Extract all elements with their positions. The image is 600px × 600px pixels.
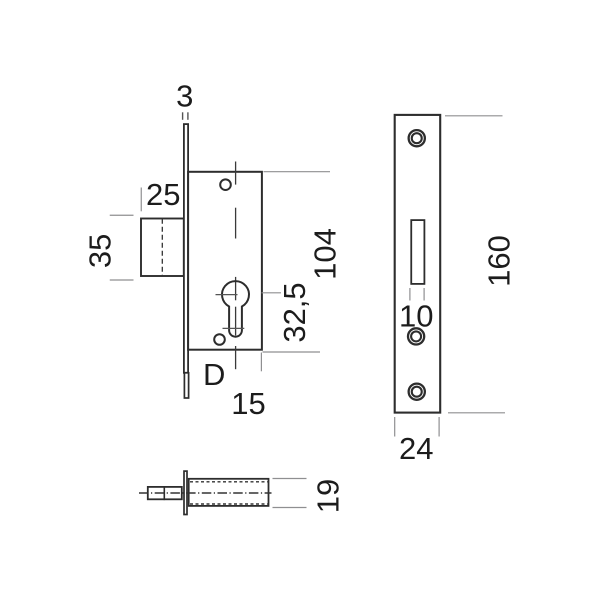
svg-text:24: 24	[399, 431, 433, 466]
dim 15 ext right	[260, 353, 262, 372]
crosshair cylinder center	[216, 294, 238, 296]
svg-text:15: 15	[231, 386, 265, 421]
svg-text:D: D	[203, 357, 225, 392]
dim 19 ext top	[273, 478, 307, 480]
spindle body	[189, 479, 269, 506]
dim 10 ext left	[409, 288, 411, 301]
dim 19 ext bottom	[273, 507, 307, 509]
svg-text:32,5: 32,5	[277, 282, 312, 342]
top screw hole	[220, 179, 231, 190]
svg-text:3: 3	[176, 79, 193, 114]
dim 3 tick left	[182, 112, 184, 120]
svg-text:25: 25	[146, 177, 180, 212]
plate hole bottom inner	[412, 387, 422, 397]
dim 104 ext bottom	[263, 351, 321, 353]
dim 160 ext top	[445, 115, 503, 117]
lock body	[188, 172, 262, 350]
centerline segment 3	[235, 277, 237, 300]
plate hole bottom outer	[409, 384, 425, 400]
dim 35 tick top	[110, 214, 134, 216]
spindle body dotted bottom	[190, 503, 268, 505]
dim 104 ext top	[264, 171, 331, 173]
faceplate lower end	[184, 373, 188, 398]
plate hole top outer	[409, 130, 425, 146]
svg-text:35: 35	[82, 234, 117, 268]
centerline segment 4	[235, 307, 237, 336]
latch slot	[411, 220, 424, 284]
dim 160 ext bottom	[448, 412, 505, 414]
spindle center axis	[139, 492, 272, 494]
dim 35 tick bottom	[110, 279, 134, 281]
faceplate (side view)	[184, 124, 188, 373]
svg-text:160: 160	[482, 235, 517, 287]
dim 3 tick right	[187, 112, 189, 120]
centerline segment 1	[235, 162, 237, 185]
centerline segment 5	[235, 346, 237, 369]
spindle tip divider	[163, 486, 165, 500]
spindle tip	[148, 487, 182, 499]
plate hole middle outer	[408, 328, 424, 344]
small screw hole	[214, 334, 225, 345]
dim 25 tick	[140, 188, 142, 212]
strike plate	[395, 115, 441, 413]
centerline segment 2	[235, 208, 237, 239]
dim 32,5 ext	[262, 292, 282, 294]
dim 24 ext right	[438, 417, 440, 437]
crosshair stem arc center	[223, 327, 245, 329]
plate hole top inner	[412, 133, 422, 143]
dim 10 ext right	[423, 288, 425, 301]
euro cylinder cutout	[222, 281, 249, 337]
plate hole middle inner	[411, 331, 421, 341]
svg-text:19: 19	[311, 479, 346, 513]
deadbolt	[141, 219, 184, 277]
spindle flange	[184, 471, 187, 514]
spindle body dotted top	[190, 481, 268, 483]
svg-text:104: 104	[308, 228, 343, 280]
dim 24 ext left	[394, 417, 396, 437]
deadbolt dashed line	[161, 219, 163, 276]
